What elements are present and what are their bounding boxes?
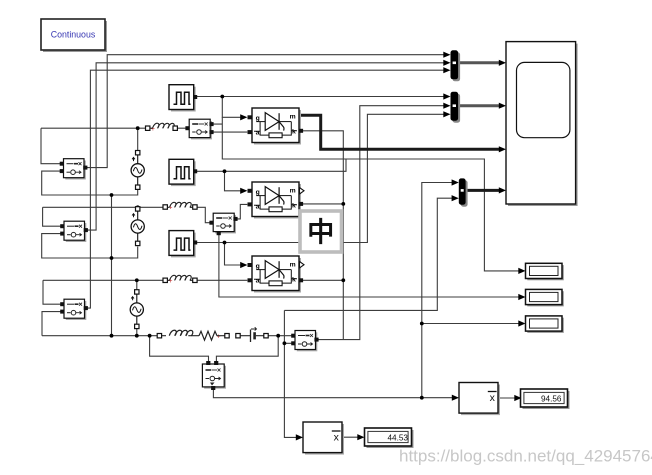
load RL branch with resistor: [157, 330, 229, 340]
wire Pulse2 output: [197, 159, 347, 171]
wire neutral B branch: [42, 234, 138, 258]
wire current measurement I1 signal to Display1: [210, 117, 520, 271]
arrowhead mux3 in2: [452, 195, 459, 201]
arrowhead display 44.53 input: [357, 434, 364, 440]
wire Vb measurement to Mux1 in2: [87, 63, 444, 230]
wire Thyristor1 m vector to Scope in3: [299, 115, 500, 149]
wire Mux2 output to Scope in2: [458, 104, 500, 107]
mux Mux2: [451, 92, 461, 123]
wire load voltage signal to Mean1 and Mux3 in2: [284, 198, 452, 437]
arrowhead display1: [518, 268, 525, 274]
wire neutral C and load bus: [42, 195, 157, 336]
display block empty D3: [526, 316, 564, 333]
junction node pulse1 line: [220, 95, 224, 99]
wire load return through current measurement: [150, 336, 279, 362]
mean block Mean2: [459, 383, 500, 416]
current measurement I2: [209, 213, 237, 235]
arrowhead display3: [518, 320, 525, 326]
arrowhead gate g3: [240, 262, 247, 268]
arrowhead mux3 in1: [452, 179, 459, 185]
arrowhead mux1 in3: [443, 67, 450, 73]
arrowhead mean1 input: [296, 434, 303, 440]
junction node pulse2 line: [223, 169, 227, 173]
junction node cathode k3: [341, 278, 345, 282]
wire Vc measurement to Mux1 in3: [87, 70, 444, 308]
arrowhead mux1 in2: [443, 60, 450, 66]
wire Mean1 to Display 44.53: [342, 436, 358, 438]
junction node load voltage to mean1: [283, 341, 287, 345]
arrowhead mux2 in3: [443, 111, 450, 117]
display block value 44.53: [365, 428, 414, 448]
wire Pulse1 branch to gate g of Thyristor1: [222, 97, 241, 118]
powergui block Continuous: [41, 19, 107, 52]
arrowhead scope in1: [499, 60, 506, 66]
wire Pulse3 branch to gate g of Thyristor3: [225, 243, 242, 266]
arrowhead scope in2: [499, 103, 506, 109]
svg-text:+: +: [217, 333, 221, 340]
voltage measurement VM1: [60, 159, 88, 180]
pulse generator P2: [169, 159, 197, 186]
junction node phase A at source top: [136, 126, 140, 130]
pulse generator P3: [169, 231, 197, 258]
junction node AC3 bottom on bus: [135, 334, 139, 338]
DC voltage source battery E: [236, 327, 268, 342]
series RL branch phase C: [163, 275, 197, 285]
wire Pulse3 to Mux2 in3: [197, 114, 445, 242]
wire phase A node: [41, 128, 187, 164]
display block value 94.56: [521, 389, 570, 409]
wire load branch to voltage measurement: [268, 335, 292, 337]
thyristor block T2: [248, 182, 305, 219]
arrowhead mux2 in1: [443, 93, 450, 99]
junction node phase B at source top: [136, 205, 140, 209]
scope block: [506, 42, 578, 206]
series RL branch phase A: [146, 123, 178, 133]
junction node neutral trunk at C bus: [110, 334, 114, 338]
wire Va measurement to Mux1 in1: [87, 55, 445, 168]
AC voltage source Va: [131, 151, 144, 190]
wire phase B node: [43, 207, 211, 226]
wire cathode common node: [302, 106, 444, 340]
junction node load current to display3: [420, 322, 424, 326]
svg-text:中: 中: [307, 218, 334, 248]
wire current measurement I2 to anode a of Thyristor2: [236, 204, 247, 219]
thyristor block T1: [248, 108, 304, 145]
wire Pulse2 branch to gate g of Thyristor2: [225, 171, 242, 191]
thyristor block T3: [248, 256, 305, 293]
junction node neutral trunk at A: [110, 193, 114, 197]
annotation box with Chinese character: [300, 211, 342, 252]
junction node neutral trunk at B: [110, 256, 114, 260]
load current measurement I4: [202, 361, 226, 390]
voltage measurement VM2: [60, 221, 88, 242]
wire current measurement I2 signal to Display2: [219, 232, 520, 297]
wire Mux1 output to Scope in1: [458, 61, 500, 64]
display block empty D1: [526, 263, 564, 280]
junction node load return tap on bus: [148, 334, 152, 338]
load voltage measurement VM4: [291, 331, 318, 352]
mean block Mean1: [303, 422, 344, 455]
arrowhead mux1 in1: [443, 52, 450, 58]
mux Mux1: [451, 50, 461, 81]
AC voltage source Vb: [131, 207, 144, 246]
arrowhead mux2 in2: [443, 103, 450, 109]
wire neutral A branch: [42, 171, 138, 195]
voltage measurement VM3: [60, 299, 88, 320]
display block empty D2: [526, 289, 564, 306]
pulse generator P1: [169, 85, 197, 112]
arrowhead gate g2: [240, 188, 247, 194]
svg-text:Continuous: Continuous: [51, 30, 96, 40]
arrowhead display 94.56 input: [514, 395, 521, 401]
junction node load current to mean2: [420, 396, 424, 400]
series RL branch phase B: [163, 202, 197, 211]
svg-text:94.56: 94.56: [541, 395, 562, 404]
mux Mux3: [459, 178, 468, 206]
arrowhead scope in3: [499, 146, 506, 152]
wire Pulse1 to Mux2 in1: [197, 96, 445, 98]
wire phase C node: [43, 280, 247, 304]
junction node pulse3 line: [223, 241, 227, 245]
arrowhead gate g1: [240, 114, 247, 120]
junction node phase C at source top: [135, 278, 139, 282]
wire load current signal to Mean2 Display3 and Mux3 in1: [213, 183, 520, 398]
current measurement I1: [185, 119, 213, 139]
arrowhead display2: [518, 294, 525, 300]
svg-text:https://blog.csdn.net/qq_42945: https://blog.csdn.net/qq_42945764: [399, 447, 652, 466]
arrowhead mean2 input: [452, 395, 459, 401]
junction node battery output: [276, 334, 280, 338]
svg-text:44.53: 44.53: [388, 434, 409, 443]
junction node cathode k2: [341, 202, 345, 206]
wire current measurement I1 to anode a of Thyristor1: [210, 131, 247, 133]
wire Mux3 output to Scope in4: [466, 189, 500, 192]
arrowhead scope in4: [499, 187, 506, 193]
wire Mean2 to Display 94.56: [498, 397, 515, 399]
AC voltage source Vc: [130, 290, 143, 329]
